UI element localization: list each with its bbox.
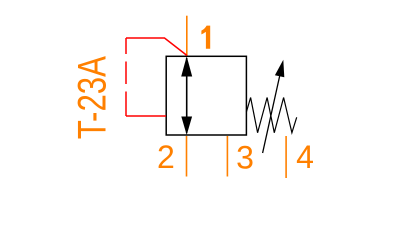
valve body (envelope box) <box>166 56 246 135</box>
flow path double arrow shaft <box>186 58 188 133</box>
port 4 wire <box>285 136 287 178</box>
svg-text:3: 3 <box>236 139 254 175</box>
svg-text:4: 4 <box>296 139 314 175</box>
port 1 wire <box>186 16 188 56</box>
adjustment arrow shaft <box>263 75 280 154</box>
pilot line bottom horizontal (red) <box>126 115 166 117</box>
flow path arrowhead down <box>181 117 192 136</box>
port 3 wire <box>226 136 228 177</box>
port label 1 <box>201 26 210 49</box>
svg-text:T-23A: T-23A <box>70 56 114 140</box>
pilot line top horizontal (red) <box>126 38 187 56</box>
adjustment arrowhead <box>275 60 284 78</box>
pilot line vertical dashed (red) <box>125 38 127 116</box>
spring <box>246 98 296 133</box>
flow path arrowhead up <box>181 56 192 76</box>
port 2 wire <box>186 136 188 177</box>
svg-text:2: 2 <box>157 139 175 175</box>
